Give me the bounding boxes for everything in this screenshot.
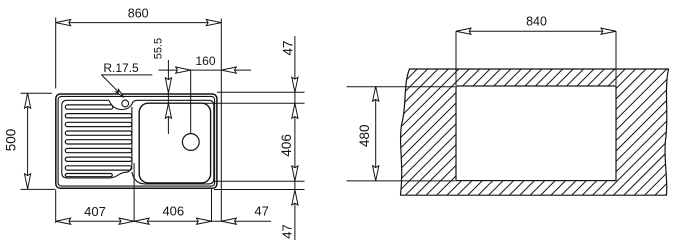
svg-text:47: 47 [280,40,295,55]
svg-text:47: 47 [254,204,268,219]
svg-text:47: 47 [280,224,295,238]
svg-text:407: 407 [84,204,106,219]
svg-text:406: 406 [279,134,294,157]
svg-text:840: 840 [526,15,547,29]
svg-text:860: 860 [128,7,149,21]
svg-text:500: 500 [4,129,19,152]
svg-text:406: 406 [162,204,184,219]
svg-text:160: 160 [195,54,215,68]
svg-text:480: 480 [357,124,372,147]
svg-text:55.5: 55.5 [153,38,165,59]
svg-text:R.17.5: R.17.5 [103,61,139,75]
